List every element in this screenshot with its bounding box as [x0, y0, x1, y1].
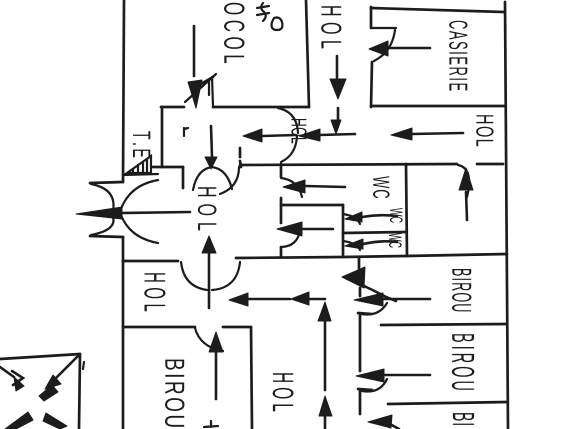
arrow wc upper head [283, 180, 305, 193]
arrow corridor down shaft [211, 126, 212, 157]
arrow birou1 exit tail [362, 285, 396, 301]
wall wc left [280, 164, 283, 256]
door wc lower leaf [282, 231, 300, 247]
arrow exit shaft [122, 212, 190, 213]
stairwell fat arrow ne [39, 385, 58, 401]
tick bottom center [204, 421, 218, 427]
label hol bottom [273, 373, 294, 411]
wall wc right [406, 164, 407, 256]
arrow hol-top down 2 head [331, 120, 341, 134]
arrow wc lower shaft [302, 228, 333, 231]
wall birou door nib 1 [358, 313, 371, 314]
arrow corridor left 2 shaft [320, 134, 355, 135]
arrow birou-left up shaft [215, 352, 218, 399]
wall birou door nib 2 [358, 389, 372, 390]
door vestibule top leaf [121, 180, 158, 209]
arrow corridor left 2 head [299, 129, 320, 141]
door corridor divider upper leaf [278, 108, 298, 133]
stairwell diagonal arrow head [45, 375, 61, 389]
arrow birou2 exit shaft [383, 298, 430, 301]
arrow hol up head [202, 236, 216, 253]
arrow exit head [76, 207, 122, 219]
arrow office-right up head [459, 168, 473, 190]
arrow lower-hol up 1 shaft [324, 321, 327, 390]
wall birou-left right [251, 327, 252, 429]
tick stairwell corner [83, 362, 84, 369]
arrow wc lower head [277, 222, 302, 236]
door office-right leaf [458, 165, 469, 197]
label hol lower-left [144, 273, 165, 311]
door casierie nib [371, 27, 396, 29]
door corridor-hol side arc [220, 167, 239, 194]
wall left outer top [123, 0, 124, 182]
door birou2 leaf [361, 303, 387, 315]
arrow wc stall 2 [345, 239, 363, 249]
arrow lower-hol left 2 shaft [309, 298, 325, 301]
arrow corridor left 1 shaft [262, 135, 296, 136]
label hol small center [291, 119, 306, 143]
wall exit bay top jamb [90, 182, 123, 183]
arrow wc upper shaft [305, 186, 345, 187]
door casierie leaf [374, 30, 395, 61]
wall top corridor left segment [161, 106, 184, 109]
door birou-left leaf [195, 328, 223, 351]
door hol double left leaf [181, 262, 207, 290]
label top squiggle 2 [272, 18, 283, 31]
door corridor-hol right arc [212, 167, 232, 189]
door corridor divider lower leaf [281, 136, 297, 162]
tick corridor wall [184, 128, 188, 136]
wall birou divider 1 [381, 324, 507, 325]
door vestibule bottom leaf [121, 215, 158, 243]
wall wc stalls divider [343, 232, 406, 233]
door corridor-hol left arc [193, 167, 212, 190]
wall casierie top [371, 8, 504, 12]
stairs hatch triangle [127, 156, 151, 173]
arrow protocol down head [188, 80, 202, 108]
arrow wc stall 2 shaft [363, 241, 397, 244]
label birou 2 [452, 334, 475, 390]
label te [133, 131, 150, 157]
arrow casierie head [369, 41, 388, 56]
label wc small 1 [390, 208, 403, 223]
label hol top [321, 6, 341, 48]
stairwell diagonal arrow from corner [50, 354, 80, 384]
arrow wc stall 1 shaft [362, 215, 397, 217]
door top corridor leaf [185, 74, 216, 102]
label birou 3 [453, 413, 474, 425]
stairwell box top edge [0, 354, 80, 359]
stairs hatch base [123, 174, 158, 175]
door wc stall 1 leaf [343, 214, 360, 224]
wall birou-left top [124, 326, 251, 329]
stairwell open arrow [0, 367, 23, 385]
arrow wc stall 1 [345, 212, 362, 222]
wall corridor right [240, 148, 241, 167]
arrow corridor left 3 head [391, 128, 412, 140]
wall wc partition horizontal [281, 204, 343, 207]
stairwell fat arrow sw [5, 412, 33, 429]
door wc stall 2 leaf [343, 241, 360, 250]
door exit bay bottom leaf [91, 217, 114, 235]
label protocol [224, 3, 245, 63]
wall casierie bottom [371, 105, 505, 108]
arrow birou2 exit head [354, 293, 383, 306]
arrow birou1 exit head [342, 267, 365, 288]
arrow corridor left 3 shaft [412, 133, 463, 134]
label hol right [476, 115, 494, 146]
arrow hol-top down 2 shaft [337, 108, 340, 120]
arrow corridor left 1 head [243, 129, 262, 142]
door birou3 leaf [362, 379, 387, 392]
wall long mid horizontal [236, 254, 507, 258]
arrow corridor down head [205, 157, 217, 169]
label top squiggle 1 [257, 3, 269, 21]
arrow hol-top down 1 shaft [336, 56, 339, 78]
stairwell fat arrow nw [14, 377, 24, 391]
stairwell box right edge [79, 354, 80, 429]
wall te nook right [161, 107, 164, 167]
arrow lower-hol left 1 shaft [248, 298, 290, 301]
arrow lower-hol left 2 head [291, 292, 309, 305]
arrow lower-hol up 1 head [318, 302, 331, 321]
wall birou column left segments [359, 257, 360, 414]
wall corridor door stub [182, 167, 185, 188]
arrow birou3 exit shaft [384, 374, 430, 377]
door top corridor jamb tick [209, 77, 213, 106]
wall hol mid horizontal [240, 164, 503, 165]
label hol center [198, 187, 217, 230]
label wc small 2 [389, 233, 402, 248]
arrow birou3 exit head [356, 369, 384, 382]
arrow birou4 exit tail [390, 424, 399, 429]
label birou left [165, 360, 185, 427]
wall top corridor right segment [213, 106, 309, 109]
wall birou divider 2 [388, 402, 507, 404]
arrow birou-left up head [209, 332, 223, 352]
label wc big [373, 176, 390, 198]
arrow hol up shaft [208, 253, 211, 308]
wall exit bay bottom jamb [90, 236, 123, 237]
wall left outer bottom [122, 237, 125, 429]
label birou 1 [452, 269, 472, 311]
stairwell fat arrow se [43, 413, 67, 429]
wall hol top-left horizontal [123, 260, 178, 263]
arrow hol-top down 1 head [330, 79, 346, 99]
arrow birou4 exit head [368, 415, 392, 428]
wall protocol right [306, 0, 309, 107]
arrow protocol down shaft [193, 26, 196, 76]
wall wc partition vertical [342, 205, 345, 255]
door wc upper leaf [281, 178, 302, 197]
wall te nook bottom [153, 166, 183, 169]
wall casierie left [371, 7, 372, 107]
arrow casierie shaft [388, 47, 430, 50]
door hol double right leaf [212, 262, 240, 290]
arrow lower-hol up 2 shaft [324, 416, 327, 429]
wall right outer [505, 2, 508, 429]
label casierie [449, 21, 467, 91]
arrow lower-hol up 2 head [319, 396, 332, 416]
arrow lower-hol left 1 head [229, 293, 248, 306]
door exit bay top leaf [91, 184, 114, 211]
arrow office-right up shaft [466, 192, 467, 220]
